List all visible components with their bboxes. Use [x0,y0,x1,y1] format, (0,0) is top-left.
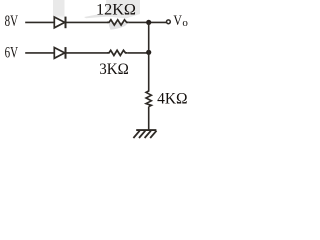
resistor R1 [107,20,129,25]
diode D1 [54,17,65,29]
junction node middle [146,50,151,55]
wire [66,52,108,54]
shading band artifact [53,0,140,30]
svg-text:3KΩ: 3KΩ [99,61,129,78]
wire [25,52,54,54]
wire [127,52,148,54]
wire [148,22,150,90]
svg-text:8V: 8V [5,13,19,30]
resistor R3 [146,90,151,107]
svg-text:12KΩ: 12KΩ [96,1,136,18]
junction node top [146,20,151,25]
wire [129,21,167,23]
diode D2 [54,47,65,59]
wire [25,21,54,23]
ground [133,130,156,138]
output terminal circle [167,20,171,24]
svg-text:4KΩ: 4KΩ [157,90,188,107]
svg-text:V: V [173,13,182,29]
wire [148,107,150,130]
svg-text:6V: 6V [5,45,19,62]
wire [66,21,108,23]
resistor R2 [107,50,127,55]
svg-text:o: o [182,17,188,29]
